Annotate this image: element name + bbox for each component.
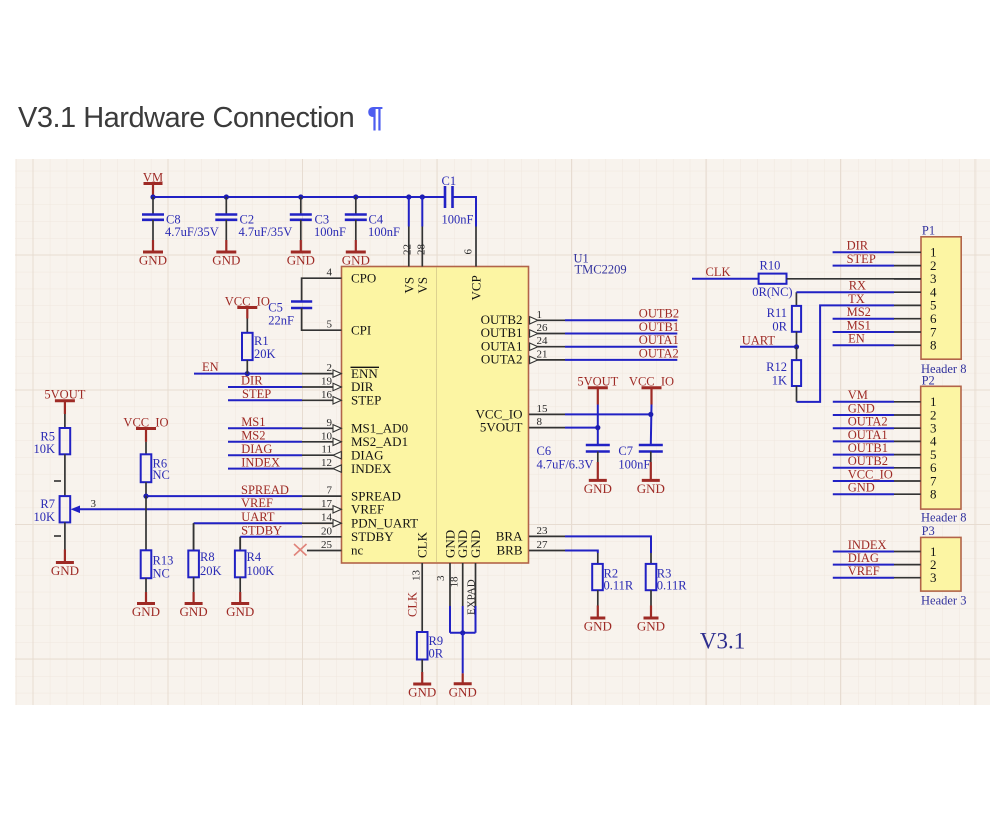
svg-text:MS1: MS1	[847, 318, 871, 332]
capacitor C4	[345, 197, 400, 252]
svg-text:21: 21	[537, 348, 548, 360]
svg-text:3: 3	[435, 575, 447, 581]
resistor R4	[235, 537, 274, 604]
capacitor C7	[618, 444, 662, 480]
wire DIR P1 pin1	[833, 251, 894, 253]
ground below R3	[637, 618, 665, 634]
resistor R1	[242, 333, 276, 374]
svg-text:R10: R10	[760, 259, 781, 273]
P2 pin 7 + net VCC_IO	[833, 467, 937, 488]
resistor R13	[141, 550, 174, 603]
svg-text:INDEX: INDEX	[848, 538, 887, 552]
pin 24 OUTA1	[481, 335, 677, 353]
resistor R6	[141, 454, 170, 496]
pin 5 CPI	[302, 308, 372, 337]
svg-text:GND: GND	[584, 481, 612, 496]
P2 pin 3 + net OUTA2	[833, 415, 937, 436]
pin 16 STEP	[302, 389, 381, 408]
svg-text:VS: VS	[415, 277, 430, 294]
svg-text:27: 27	[537, 539, 549, 551]
svg-text:OUTA1: OUTA1	[848, 428, 888, 442]
pin 22 VS top	[401, 197, 416, 294]
svg-text:100nF: 100nF	[618, 458, 650, 472]
svg-text:MS1: MS1	[241, 415, 265, 429]
P3 pin 2 + net DIAG	[833, 551, 937, 572]
resistor R3	[646, 564, 688, 618]
svg-text:0R: 0R	[772, 319, 787, 333]
P1 pin 8	[894, 338, 937, 353]
pin 17 VREF	[302, 498, 384, 517]
svg-text:GND: GND	[180, 604, 208, 619]
svg-text:12: 12	[321, 457, 332, 469]
svg-text:GND: GND	[848, 401, 875, 415]
svg-text:P3: P3	[922, 524, 935, 538]
svg-text:UART: UART	[742, 333, 776, 347]
svg-text:TX: TX	[848, 292, 865, 306]
svg-text:3: 3	[930, 570, 937, 585]
svg-text:GND: GND	[408, 685, 436, 700]
svg-text:25: 25	[321, 539, 333, 551]
svg-text:R13: R13	[153, 554, 174, 568]
pin 1 OUTB2	[481, 309, 678, 327]
wire STEP	[228, 399, 302, 401]
pin 11 DIAG	[302, 444, 384, 463]
pin 2 ENN	[302, 362, 379, 381]
svg-text:R12: R12	[766, 360, 787, 374]
P3 pin 1 + net INDEX	[833, 538, 937, 559]
svg-text:100nF: 100nF	[442, 213, 474, 227]
ground below R13	[132, 604, 160, 620]
svg-text:3: 3	[91, 498, 97, 510]
ground below EXPAD	[449, 684, 477, 700]
pin 19 DIR	[302, 376, 374, 395]
svg-text:15: 15	[537, 403, 549, 415]
wire UART right	[740, 346, 797, 348]
wire DIAG	[228, 454, 302, 456]
pin 21 OUTA2	[481, 348, 677, 366]
resistor R9	[417, 632, 444, 684]
ground under C8	[139, 252, 167, 268]
svg-text:0.11R: 0.11R	[657, 579, 687, 593]
svg-text:4.7uF/35V: 4.7uF/35V	[165, 225, 219, 239]
svg-text:GND: GND	[51, 563, 79, 578]
svg-text:GND: GND	[212, 253, 240, 268]
net label MS1 P1	[833, 318, 894, 332]
power port VCC_IO right	[629, 375, 674, 445]
pin 18 GND bottom	[449, 530, 471, 633]
svg-text:0R: 0R	[429, 647, 444, 661]
junction R6/SPREAD	[143, 494, 148, 499]
resistor R11	[767, 306, 801, 347]
wire VREF	[80, 508, 302, 510]
svg-text:13: 13	[411, 570, 423, 582]
svg-text:OUTA1: OUTA1	[639, 333, 679, 347]
svg-text:18: 18	[449, 576, 461, 588]
svg-text:5: 5	[327, 319, 333, 331]
svg-text:8: 8	[537, 416, 543, 428]
P1 pin 1	[894, 245, 937, 260]
pin 8 5VOUT right	[480, 416, 598, 435]
wire SPREAD	[146, 495, 302, 497]
P2 pin 4 + net OUTA1	[833, 428, 937, 449]
svg-text:0R(NC): 0R(NC)	[752, 285, 792, 299]
net label DIR P1	[833, 239, 894, 266]
ground below R4	[226, 604, 254, 620]
schematic sheet background	[15, 159, 990, 705]
resistor R8	[188, 523, 221, 603]
svg-text:GND: GND	[139, 253, 167, 268]
svg-text:GND: GND	[468, 530, 483, 558]
pin 15 VCC_IO right	[476, 403, 651, 422]
svg-text:10K: 10K	[33, 510, 55, 524]
wire RX corner	[796, 292, 894, 306]
svg-text:GND: GND	[848, 481, 875, 495]
ground below R7	[51, 563, 79, 579]
svg-text:4.7uF/35V: 4.7uF/35V	[239, 225, 293, 239]
ground below C7	[637, 480, 665, 496]
svg-text:DIAG: DIAG	[848, 551, 879, 565]
P2 pin 6 + net OUTB2	[833, 454, 937, 475]
svg-text:GND: GND	[449, 684, 477, 699]
svg-text:22nF: 22nF	[268, 314, 294, 328]
ground under C3	[287, 252, 315, 268]
svg-text:EXPAD: EXPAD	[465, 579, 477, 615]
svg-text:EN: EN	[848, 332, 865, 346]
svg-text:CPO: CPO	[351, 270, 376, 285]
svg-text:1: 1	[537, 309, 543, 321]
svg-text:VM: VM	[848, 388, 868, 402]
svg-text:10K: 10K	[33, 442, 55, 456]
ground below R9	[408, 684, 436, 700]
svg-text:EN: EN	[202, 360, 219, 374]
wire GND bus bottom	[450, 630, 476, 684]
svg-text:R1: R1	[254, 334, 269, 348]
svg-text:CLK: CLK	[706, 265, 731, 279]
svg-text:VREF: VREF	[848, 564, 880, 578]
svg-text:BRB: BRB	[496, 543, 522, 558]
svg-text:9: 9	[327, 417, 333, 429]
svg-text:4: 4	[327, 267, 333, 279]
svg-text:MS2: MS2	[241, 429, 265, 443]
svg-text:7: 7	[327, 485, 333, 497]
junction VCC_IO pin15	[648, 412, 653, 417]
P2 pin 5 + net OUTB1	[833, 441, 937, 462]
svg-text:26: 26	[537, 322, 549, 334]
svg-text:R4: R4	[247, 550, 262, 564]
svg-text:BRA: BRA	[496, 528, 523, 543]
svg-text:20: 20	[321, 525, 333, 537]
pin 23 BRA	[496, 525, 651, 564]
pin 6 VCP top	[463, 227, 484, 301]
svg-text:14: 14	[321, 512, 333, 524]
P1 pin 5	[894, 298, 937, 313]
svg-text:0.11R: 0.11R	[604, 579, 634, 593]
net label MS2 P1	[833, 305, 894, 319]
junction 5VOUT pin8	[595, 425, 600, 430]
svg-text:100nF: 100nF	[368, 225, 400, 239]
svg-text:OUTA2: OUTA2	[481, 352, 523, 367]
svg-text:STDBY: STDBY	[241, 524, 282, 538]
svg-text:C5: C5	[268, 301, 283, 315]
svg-text:CLK: CLK	[406, 592, 420, 617]
ground under C4	[342, 252, 370, 268]
pin EXPAD GND bottom	[465, 530, 483, 633]
svg-text:GND: GND	[132, 604, 160, 619]
svg-text:OUTA2: OUTA2	[848, 415, 888, 429]
power port VCC_IO above R6	[123, 415, 168, 454]
svg-text:VCC_IO: VCC_IO	[848, 467, 893, 481]
svg-text:VREF: VREF	[241, 496, 273, 510]
svg-text:OUTA2: OUTA2	[639, 346, 679, 360]
net label EN P1	[833, 332, 894, 346]
wire C1 to VCP	[453, 197, 477, 227]
pin 26 OUTB1	[481, 322, 678, 340]
svg-text:TMC2209: TMC2209	[575, 263, 627, 277]
P1 pin 7	[894, 324, 937, 339]
P1 pin 4	[894, 285, 937, 300]
svg-text:R11: R11	[767, 306, 787, 320]
resistor R2	[592, 564, 634, 618]
svg-text:GND: GND	[342, 253, 370, 268]
svg-text:STEP: STEP	[847, 252, 876, 266]
svg-text:17: 17	[321, 498, 333, 510]
wire INDEX	[228, 468, 302, 470]
svg-text:MS2: MS2	[847, 305, 871, 319]
svg-text:2: 2	[327, 362, 333, 374]
resistor R5	[33, 428, 70, 496]
wire MS1	[228, 427, 302, 429]
svg-text:8: 8	[930, 487, 937, 502]
svg-text:OUTB2: OUTB2	[848, 454, 888, 468]
svg-text:100nF: 100nF	[314, 225, 346, 239]
svg-text:6: 6	[463, 249, 475, 255]
svg-text:DIR: DIR	[847, 239, 869, 253]
svg-text:STEP: STEP	[242, 387, 271, 401]
pin 27 BRB	[496, 539, 597, 564]
wire STDBY	[239, 537, 241, 551]
svg-text:CPI: CPI	[351, 322, 371, 337]
svg-text:C6: C6	[537, 444, 552, 458]
svg-text:OUTB2: OUTB2	[639, 307, 679, 321]
svg-text:28: 28	[415, 244, 427, 256]
svg-text:GND: GND	[637, 619, 665, 634]
svg-text:DIR: DIR	[241, 374, 263, 388]
svg-text:nc: nc	[351, 543, 364, 558]
svg-text:INDEX: INDEX	[351, 461, 392, 476]
svg-text:22: 22	[402, 244, 414, 255]
junction EN/R1	[245, 371, 250, 376]
P1 pin 3	[894, 271, 937, 286]
svg-text:Header 3: Header 3	[921, 594, 966, 608]
svg-text:DIAG: DIAG	[241, 442, 272, 456]
capacitor C1	[442, 174, 474, 227]
capacitor C6	[537, 444, 610, 480]
net label STEP P1	[847, 252, 876, 266]
major grid lines	[15, 159, 990, 705]
svg-text:C7: C7	[618, 444, 633, 458]
wire MS2	[228, 441, 302, 443]
P2 pin 8 + net GND	[833, 481, 937, 502]
connector P1	[921, 224, 966, 376]
pin 4 CPO	[302, 267, 377, 302]
svg-text:24: 24	[537, 335, 549, 347]
capacitor C5	[268, 301, 312, 328]
power port 5VOUT right	[577, 375, 618, 445]
svg-text:UART: UART	[241, 510, 275, 524]
ground below C6	[584, 480, 612, 496]
svg-text:VREF: VREF	[351, 502, 384, 517]
pin 28 VS top	[415, 197, 430, 294]
pin 25 nc with no-connect X	[294, 539, 364, 558]
svg-text:20K: 20K	[200, 564, 222, 578]
svg-text:11: 11	[321, 444, 332, 456]
wire EN	[194, 373, 302, 375]
svg-text:NC: NC	[153, 567, 170, 581]
pin 13 CLK bottom	[411, 531, 430, 632]
power port VCC_IO above R1	[225, 295, 270, 333]
capacitor C3	[290, 197, 346, 252]
svg-text:100K: 100K	[247, 564, 275, 578]
ground under C2	[212, 252, 240, 268]
P2 pin 2 + net GND	[833, 401, 937, 422]
pin 20 STDBY	[302, 525, 394, 544]
power port VM	[143, 171, 163, 198]
junction UART	[794, 344, 799, 349]
P1 pin 6	[894, 311, 937, 326]
resistor R10	[752, 259, 921, 299]
wire R6 to R13	[145, 496, 147, 550]
page title	[18, 102, 383, 135]
pin 14 PDN_UART	[302, 512, 418, 531]
svg-text:20K: 20K	[254, 347, 276, 361]
svg-text:P1: P1	[922, 224, 935, 238]
pin 9 MS1_AD0	[302, 417, 408, 436]
svg-text:GND: GND	[226, 604, 254, 619]
svg-text:VCP: VCP	[469, 275, 484, 300]
P3 pin 3 + net VREF	[833, 564, 937, 585]
P2 pin 1 + net VM	[833, 388, 937, 409]
power port 5VOUT	[44, 388, 85, 428]
svg-text:SPREAD: SPREAD	[241, 483, 289, 497]
svg-text:V3.1: V3.1	[700, 629, 745, 654]
resistor R12	[766, 347, 801, 402]
svg-text:16: 16	[321, 389, 333, 401]
svg-text:1K: 1K	[772, 373, 787, 387]
svg-text:4.7uF/6.3V: 4.7uF/6.3V	[537, 458, 594, 472]
svg-text:INDEX: INDEX	[241, 455, 280, 469]
potentiometer R7	[33, 496, 96, 562]
ground below R8	[180, 604, 208, 620]
svg-text:5VOUT: 5VOUT	[480, 420, 523, 435]
P1 pin 2	[894, 258, 937, 273]
svg-text:STEP: STEP	[351, 393, 381, 408]
svg-text:CLK: CLK	[415, 531, 430, 558]
junction dots on VM rail	[150, 194, 425, 199]
svg-text:GND: GND	[287, 253, 315, 268]
svg-text:GND: GND	[637, 481, 665, 496]
wire R12 to TX	[797, 305, 895, 402]
svg-text:C1: C1	[442, 174, 457, 188]
pin 3 GND bottom	[435, 530, 457, 633]
wire VM rail	[153, 196, 445, 198]
capacitor C2	[215, 197, 292, 252]
svg-text:8: 8	[930, 338, 937, 353]
wire DIR	[228, 386, 302, 388]
svg-text:19: 19	[321, 376, 333, 388]
wire CLK	[692, 278, 759, 280]
wire UART	[193, 523, 195, 550]
svg-text:R7: R7	[40, 497, 55, 511]
svg-text:23: 23	[537, 525, 549, 537]
pin 7 SPREAD	[302, 485, 401, 504]
connector P2	[921, 374, 967, 525]
capacitor C8	[142, 197, 219, 252]
connector P3	[921, 524, 967, 607]
svg-text:NC: NC	[153, 468, 170, 482]
svg-text:OUTB1: OUTB1	[639, 320, 679, 334]
svg-text:OUTB1: OUTB1	[848, 441, 888, 455]
op-chip U1 TMC2209 body	[342, 267, 529, 564]
svg-text:GND: GND	[584, 619, 612, 634]
pin 10 MS2_AD1	[302, 430, 408, 449]
svg-text:10: 10	[321, 430, 333, 442]
svg-text:RX: RX	[849, 279, 866, 293]
pin 12 INDEX	[302, 457, 392, 476]
svg-text:Header 8: Header 8	[921, 511, 966, 525]
ground below R2	[584, 618, 612, 634]
svg-text:R8: R8	[200, 550, 215, 564]
